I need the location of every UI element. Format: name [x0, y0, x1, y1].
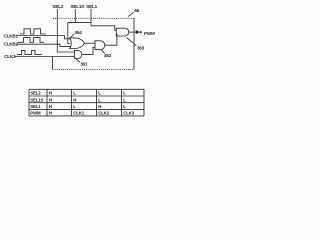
wire E output	[129, 31, 137, 33]
or-gate B	[75, 50, 82, 58]
wire dotted bottom route	[53, 68, 135, 70]
wire SEL1S left branch to gate A	[68, 22, 70, 43]
svg-text:363: 363	[137, 46, 145, 51]
svg-text:SEL1S: SEL1S	[71, 4, 85, 9]
svg-text:SEL1: SEL1	[30, 104, 41, 109]
svg-text:SEL1: SEL1	[86, 4, 97, 9]
wire SEL1 route	[90, 9, 92, 26]
wire CLK2	[17, 44, 71, 46]
svg-text:L: L	[73, 104, 76, 109]
svg-text:H: H	[49, 111, 52, 116]
svg-text:361: 361	[80, 61, 88, 66]
svg-text:46: 46	[134, 8, 139, 13]
wire A to C	[84, 42, 95, 44]
svg-text:H: H	[49, 91, 52, 96]
svg-text:462: 462	[104, 53, 112, 58]
label 363 leader	[127, 38, 137, 46]
wire dotted top route	[53, 17, 134, 19]
wire SEL1S route	[74, 9, 76, 22]
svg-text:L: L	[98, 91, 101, 96]
table grid	[29, 89, 144, 116]
waveform CLK1	[20, 29, 46, 34]
table row SEL1	[30, 104, 126, 109]
svg-text:CLK3: CLK3	[123, 111, 134, 116]
svg-text:H: H	[49, 97, 52, 102]
waveform CLK2	[18, 38, 44, 43]
svg-text:SEL1S: SEL1S	[30, 97, 43, 102]
svg-text:L: L	[73, 91, 76, 96]
svg-text:CLK1: CLK1	[73, 111, 84, 116]
svg-text:464: 464	[75, 30, 83, 35]
svg-text:H: H	[98, 104, 101, 109]
table row SEL1S	[30, 97, 126, 102]
wire right vertical route	[133, 18, 135, 69]
svg-text:H: H	[73, 97, 76, 102]
svg-text:H: H	[49, 104, 52, 109]
wire B to C	[82, 47, 95, 54]
wire CLK3	[15, 56, 75, 58]
svg-text:SEL2: SEL2	[53, 4, 64, 9]
svg-text:L: L	[123, 97, 126, 102]
label 462 leader	[102, 50, 105, 54]
svg-text:L: L	[98, 97, 101, 102]
junction dot output	[140, 31, 142, 33]
svg-text:SEL2: SEL2	[30, 91, 41, 96]
waveform CLK3	[17, 50, 42, 54]
wire C to E	[105, 34, 118, 45]
svg-text:CLKB1: CLKB1	[4, 33, 19, 38]
label 464 leader	[71, 34, 74, 37]
or-gate C	[95, 41, 105, 50]
or-gate E	[116, 28, 128, 36]
wire SEL1S horizontal	[68, 21, 91, 23]
or-gate A	[70, 38, 85, 49]
label 361 leader	[75, 58, 80, 63]
node 4-6 leader	[128, 12, 133, 17]
svg-text:CLK3: CLK3	[4, 54, 16, 59]
svg-text:L: L	[123, 91, 126, 96]
wire left drop from CLK3	[52, 57, 54, 70]
wire SEL2 vertical	[57, 9, 74, 52]
svg-text:PWM: PWM	[30, 111, 41, 116]
table row PWM	[30, 111, 134, 116]
table row SEL2	[30, 91, 126, 96]
svg-text:L: L	[123, 104, 126, 109]
wire CLK1	[17, 36, 71, 39]
arrowhead output	[136, 31, 139, 34]
wire SEL1 staircase to gate E	[91, 26, 117, 31]
svg-text:CLKB2: CLKB2	[4, 42, 19, 47]
svg-text:CLK2: CLK2	[98, 111, 109, 116]
svg-text:PWM: PWM	[144, 31, 155, 36]
